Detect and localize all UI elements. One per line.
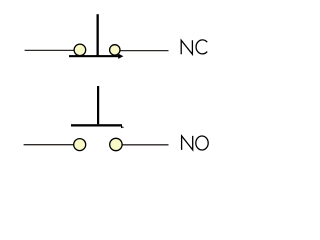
wire (right lead of NC switch)	[120, 50, 169, 52]
label NC	[181, 40, 207, 54]
pushbutton switch S2 (normally open)	[24, 86, 169, 151]
movable contact bar with arrow (NO open bar)	[71, 124, 124, 128]
wire (left lead of NC switch)	[25, 49, 75, 51]
label NO	[182, 136, 209, 150]
wire (left lead of NO switch)	[24, 144, 74, 146]
contact terminal (right, NO)	[110, 138, 122, 150]
contact terminal (left, NC)	[74, 44, 86, 56]
contact terminal (right, NC)	[110, 45, 120, 55]
actuator (plunger) of NO switch	[97, 86, 99, 124]
pushbutton switch S1 (normally closed)	[25, 14, 169, 59]
movable contact bar with arrow (NC closed bar)	[69, 54, 123, 59]
wire (right lead of NO switch)	[122, 144, 169, 146]
contact terminal (left, NO)	[74, 139, 86, 151]
actuator (plunger) of NC switch	[97, 14, 99, 55]
